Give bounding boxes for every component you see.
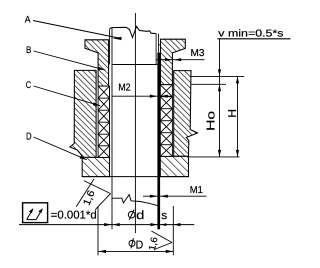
follower right edge inner	[155, 34, 157, 65]
dimension H	[237, 76, 239, 156]
svg-text:D: D	[26, 131, 32, 142]
dimension Ho	[219, 76, 221, 156]
roughness mark left 1,6 (bottom face)	[76, 179, 94, 207]
svg-text:M2: M2	[118, 83, 131, 94]
protective sleeve (thick black band)	[157, 53, 160, 230]
bottom dimension line (frame leader + od + s)	[19, 224, 194, 226]
housing D left bottom land	[82, 157, 109, 176]
extension line s right	[172, 206, 174, 255]
follower left edge inner / bore left edge	[111, 28, 113, 230]
extension line oD left	[97, 207, 99, 256]
svg-text:C: C	[26, 80, 31, 91]
leader D	[34, 137, 87, 160]
svg-text:A: A	[25, 14, 31, 25]
roughness mark right 1,6	[151, 231, 172, 250]
leader A	[33, 21, 121, 39]
gland bushing B left (flange + tail)	[85, 40, 109, 86]
dimension oD	[129, 238, 143, 251]
housing bottom face line	[82, 176, 188, 178]
packing C left column (X boxes)	[98, 86, 109, 157]
packing left inner edge line	[109, 86, 111, 177]
extension line H top	[191, 75, 244, 77]
svg-text:M3: M3	[191, 48, 205, 59]
svg-text:D: D	[136, 239, 144, 251]
gland bushing right (flange + tail)	[161, 39, 186, 84]
housing D left upper part	[70, 70, 96, 157]
svg-text:d: d	[136, 208, 144, 222]
leader B	[34, 51, 106, 70]
shaft bottom break line	[112, 195, 158, 206]
packing right inner edge line	[159, 85, 161, 177]
svg-text:B: B	[26, 45, 31, 56]
follower left edge outer	[109, 29, 111, 65]
svg-text:H: H	[227, 109, 239, 118]
svg-text:M1: M1	[190, 185, 203, 196]
gland follower top break line	[110, 27, 156, 38]
tolerance frame box	[23, 203, 48, 223]
packing right column (X boxes)	[160, 85, 172, 157]
flange ID step tick	[159, 44, 161, 46]
roughness mark bore check symbol	[84, 181, 111, 210]
leader C	[34, 86, 101, 106]
extension line Ho top	[191, 83, 226, 85]
follower bottom edge	[112, 64, 157, 66]
centerline	[134, 13, 136, 233]
tolerance symbol (two slanted arrows)	[27, 209, 43, 220]
svg-text:Ho: Ho	[206, 111, 218, 131]
svg-text:v min=0.5*s: v min=0.5*s	[218, 28, 283, 39]
svg-text:s: s	[161, 210, 167, 222]
housing right upper part	[174, 71, 198, 157]
housing right bottom land	[160, 156, 188, 176]
extension line H/Ho bottom	[187, 156, 240, 158]
svg-text:=0.001*d: =0.001*d	[51, 209, 97, 221]
dimension text od	[128, 208, 144, 222]
follower right edge outer	[158, 34, 160, 53]
